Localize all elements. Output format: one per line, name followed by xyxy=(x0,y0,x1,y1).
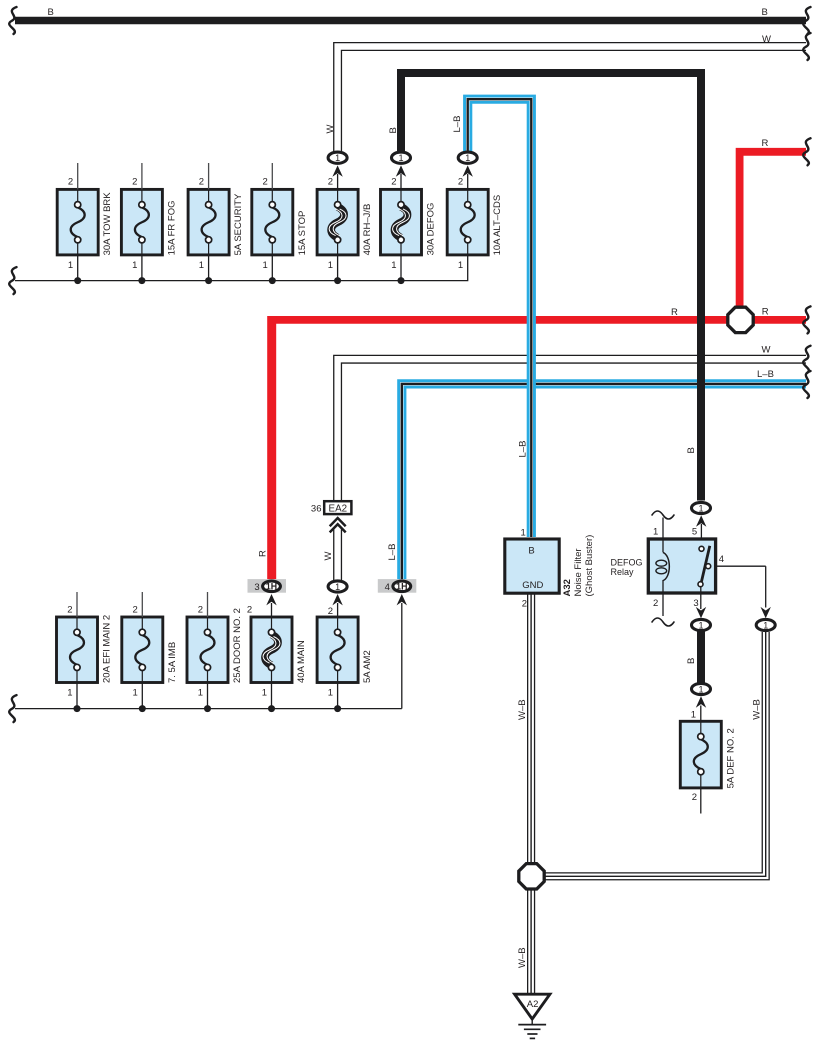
svg-text:Noise Filter: Noise Filter xyxy=(573,548,584,596)
svg-text:10A ALT–CDS: 10A ALT–CDS xyxy=(492,195,503,256)
svg-text:30A TOW BRK: 30A TOW BRK xyxy=(102,192,113,256)
connector 1 above 5A DEF NO.2 fuse xyxy=(692,683,711,694)
svg-text:1: 1 xyxy=(465,153,470,163)
connector 1 above 30A DEFOG (B wire) xyxy=(396,165,406,176)
wire B main bus top xyxy=(15,17,806,25)
octagon junction of W-B wires xyxy=(519,864,544,889)
octagon junction of R wires xyxy=(728,307,753,332)
svg-text:2: 2 xyxy=(247,605,252,616)
svg-text:W–B: W–B xyxy=(751,699,762,720)
break symbol left end of fuse row 1 bus xyxy=(9,267,16,294)
svg-text:1: 1 xyxy=(391,260,396,271)
break symbol right end of B bus xyxy=(803,7,810,34)
fuse 10A ALT–CDS xyxy=(447,177,503,271)
junction dot row-1 bus at x=77.7 xyxy=(74,277,81,284)
connector EA2 pin 36 xyxy=(324,501,351,514)
svg-text:20A EFI MAIN 2: 20A EFI MAIN 2 xyxy=(102,615,113,683)
svg-text:2: 2 xyxy=(522,598,527,609)
svg-text:1: 1 xyxy=(398,153,403,163)
break symbol right end of R wire middle xyxy=(803,306,810,333)
wire fuse pin 1 to bus at x=272.3 xyxy=(271,255,273,281)
wire fuse pin 1 to bus at x=208.6 xyxy=(208,255,210,281)
svg-text:A32: A32 xyxy=(562,579,573,596)
break symbol right end of W top wire xyxy=(803,33,810,60)
wire fuse pin 1 to bus at x=142.3 xyxy=(141,683,143,709)
break symbol left end of B bus xyxy=(9,7,16,34)
wire B thick from 30A DEFOG fuse connector to DEFOG relay xyxy=(401,73,701,501)
svg-text:L–B: L–B xyxy=(517,441,528,458)
svg-text:(Ghost Buster): (Ghost Buster) xyxy=(584,535,595,597)
fuse 5A DEF NO. 2 xyxy=(680,721,736,788)
relay switch arm xyxy=(700,546,709,586)
svg-text:2: 2 xyxy=(132,177,137,188)
wire R from right edge to octagon junction xyxy=(740,152,806,307)
svg-text:15A STOP: 15A STOP xyxy=(297,211,308,256)
svg-text:1: 1 xyxy=(199,260,204,271)
svg-text:2: 2 xyxy=(328,177,333,188)
svg-text:4: 4 xyxy=(719,554,724,565)
break symbol right end of L-B wire xyxy=(803,371,810,398)
svg-text:2: 2 xyxy=(68,177,73,188)
wire fuse pin 1 to bus at x=401.0 xyxy=(400,255,402,281)
wire fuse pin 1 to bus at x=337.6 xyxy=(337,255,339,281)
svg-text:Relay: Relay xyxy=(611,567,635,577)
svg-text:1: 1 xyxy=(335,153,340,163)
svg-text:1: 1 xyxy=(328,688,333,699)
svg-text:B: B xyxy=(528,545,534,556)
svg-text:L–B: L–B xyxy=(387,544,398,561)
wire fuse pin 1 to bus at x=77.0 xyxy=(76,683,78,709)
fuse 20A EFI MAIN 2 xyxy=(57,604,113,698)
wire fuse pin 1 to bus at x=207.5 xyxy=(207,683,209,709)
stub wire above row-2 fuse at x=142.3 xyxy=(141,592,143,617)
svg-text:1: 1 xyxy=(698,620,703,630)
relay pin 2 with break tilde xyxy=(662,580,664,616)
stub wire above row-1 fuse at x=141.9 xyxy=(141,163,143,189)
svg-text:36: 36 xyxy=(311,504,322,515)
junction dot row-1 bus at x=401.0 xyxy=(398,277,405,284)
wire relay pin 3 down to connector xyxy=(700,586,702,609)
fuse 30A TOW BRK xyxy=(57,177,113,271)
wire L-B from 10A ALT-CDS connector to noise filter A32 xyxy=(468,99,532,537)
connector 1H pin 3 (red wire to 40A MAIN) xyxy=(266,594,276,605)
svg-text:B: B xyxy=(48,7,54,18)
relay pin 1 with break tilde xyxy=(662,518,664,553)
break symbol right end of W middle wire xyxy=(803,346,810,373)
svg-text:2: 2 xyxy=(653,598,658,609)
svg-text:1: 1 xyxy=(262,688,267,699)
svg-text:2: 2 xyxy=(458,177,463,188)
junction dot row-2 bus at x=142.3 xyxy=(139,705,146,712)
wire B thick between connectors below relay pin 3 xyxy=(697,631,705,683)
junction dot row-2 bus at x=337.6 xyxy=(334,705,341,712)
wire L-B horizontal to right edge, down to 1H connector pin 4 xyxy=(402,384,806,581)
svg-text:1: 1 xyxy=(68,260,73,271)
svg-text:B: B xyxy=(686,658,697,664)
svg-text:GND: GND xyxy=(522,580,543,591)
fuse 40A RH–J/B xyxy=(317,177,373,271)
fuse 40A MAIN xyxy=(251,617,307,699)
svg-text:1: 1 xyxy=(698,503,703,513)
stub wire above row-1 fuse at x=272.3 xyxy=(271,163,273,189)
svg-text:1: 1 xyxy=(328,260,333,271)
shield chevrons below EA2 xyxy=(330,518,346,532)
wire from relay pin 4 to connector xyxy=(716,565,766,567)
junction dot row-2 bus at x=271.5 xyxy=(268,705,275,712)
svg-text:R: R xyxy=(762,307,769,318)
fuse 5A SECURITY xyxy=(188,177,244,271)
connector 1 above 40A RH-J/B (W wire) xyxy=(332,165,342,176)
stub wire above row-1 fuse at x=77.7 xyxy=(77,163,79,189)
svg-text:2: 2 xyxy=(391,177,396,188)
connector 1 above relay pin 5 xyxy=(696,515,706,526)
svg-text:W–B: W–B xyxy=(517,699,528,720)
stub wire above row-2 fuse at x=207.5 xyxy=(207,592,209,617)
svg-text:1H: 1H xyxy=(266,582,277,592)
svg-text:1: 1 xyxy=(653,527,658,538)
wire R from octagon junction to right edge xyxy=(752,316,806,324)
DEFOG relay box xyxy=(648,539,715,593)
svg-text:R: R xyxy=(671,307,678,318)
connector 1 below relay pin 3 xyxy=(696,607,706,618)
bus wire below fuse row 2 xyxy=(15,708,402,710)
wire W-B from noise filter GND to octagon junction xyxy=(527,594,535,865)
stub below 5A DEF NO.2 fuse xyxy=(700,788,702,814)
connector 1 above 5A AM2 xyxy=(332,594,342,605)
svg-text:EA2: EA2 xyxy=(329,503,348,514)
wire W below EA2 connector down to connector 1 xyxy=(333,530,342,581)
connector 1 on W-B wire right side xyxy=(761,607,771,618)
svg-text:1: 1 xyxy=(698,684,703,694)
svg-text:7. 5A IMB: 7. 5A IMB xyxy=(167,642,178,683)
svg-text:1: 1 xyxy=(458,260,463,271)
svg-text:2: 2 xyxy=(692,792,697,803)
wire fuse pin 1 to bus at x=337.6 xyxy=(337,683,339,709)
svg-text:5: 5 xyxy=(692,527,697,538)
svg-text:W: W xyxy=(762,34,771,45)
fuse 5A AM2 xyxy=(317,617,373,699)
fuse 15A STOP xyxy=(252,177,308,271)
break symbol left end of fuse row 2 bus xyxy=(9,695,16,722)
junction dot row-1 bus at x=208.6 xyxy=(205,277,212,284)
svg-text:DEFOG: DEFOG xyxy=(611,558,643,568)
svg-text:L–B: L–B xyxy=(757,369,774,380)
svg-text:1: 1 xyxy=(133,688,138,699)
svg-text:5A DEF NO. 2: 5A DEF NO. 2 xyxy=(725,728,736,788)
fuse 30A DEFOG xyxy=(381,177,437,271)
fuse 7. 5A IMB xyxy=(122,604,178,698)
svg-text:5A AM2: 5A AM2 xyxy=(362,650,373,683)
svg-text:3: 3 xyxy=(254,582,259,593)
svg-text:30A DEFOG: 30A DEFOG xyxy=(426,203,437,256)
junction dot row-1 bus at x=141.9 xyxy=(138,277,145,284)
bus wire below fuse row 1 xyxy=(15,255,468,281)
svg-text:40A RH–J/B: 40A RH–J/B xyxy=(362,204,373,256)
fuse 25A DOOR NO. 2 xyxy=(187,604,243,698)
relay coil xyxy=(663,552,670,580)
svg-text:40A MAIN: 40A MAIN xyxy=(296,640,307,683)
connector 1 above 10A ALT-CDS (L-B wire) xyxy=(463,165,473,176)
noise filter A32 box xyxy=(505,539,559,593)
break symbol right end of R wire top xyxy=(803,138,810,165)
svg-text:2: 2 xyxy=(199,177,204,188)
wire W middle horizontal to right edge, down to EA2 connector xyxy=(338,359,806,500)
stub wire above row-1 fuse at x=208.6 xyxy=(208,163,210,189)
svg-text:1: 1 xyxy=(691,710,696,721)
junction dot row-1 bus at x=272.3 xyxy=(269,277,276,284)
svg-text:15A FR FOG: 15A FR FOG xyxy=(166,200,177,255)
svg-text:5A SECURITY: 5A SECURITY xyxy=(233,193,244,255)
wire fuse pin 1 to bus at x=271.5 xyxy=(271,683,273,709)
junction dot row-2 bus at x=207.5 xyxy=(204,705,211,712)
svg-text:W: W xyxy=(762,345,771,356)
junction dot row-1 bus at x=337.6 xyxy=(334,277,341,284)
svg-text:A2: A2 xyxy=(527,999,539,1010)
svg-text:2: 2 xyxy=(328,606,333,617)
connector 1H pin 4 (L-B wire to bus) xyxy=(397,594,407,605)
svg-text:W–B: W–B xyxy=(517,947,528,968)
junction dot row-2 bus at x=77.0 xyxy=(74,705,81,712)
wire fuse pin 1 to bus at x=141.9 xyxy=(141,255,143,281)
wire W top horizontal (from connector above 40A RH-J/B fuse to right edge) xyxy=(338,47,806,153)
svg-text:2: 2 xyxy=(133,604,138,615)
svg-text:4: 4 xyxy=(385,582,390,593)
wire W-B below octagon junction to ground A2 xyxy=(527,889,535,995)
svg-text:L–B: L–B xyxy=(452,116,463,133)
svg-text:2: 2 xyxy=(198,604,203,615)
svg-text:2: 2 xyxy=(263,177,268,188)
wire fuse pin 1 to bus at x=77.7 xyxy=(77,255,79,281)
svg-text:B: B xyxy=(762,7,768,18)
relay switch contacts xyxy=(699,546,704,551)
fuse 15A FR FOG xyxy=(121,177,177,271)
ground symbol A2 xyxy=(515,994,550,1019)
svg-text:25A DOOR NO. 2: 25A DOOR NO. 2 xyxy=(232,608,243,683)
svg-text:B: B xyxy=(388,127,399,133)
svg-text:1: 1 xyxy=(67,688,72,699)
svg-text:W: W xyxy=(323,552,334,561)
wire R horizontal through middle to octagon xyxy=(268,316,730,324)
wire R vertical down to 1H connector pin 3 xyxy=(267,316,276,581)
wire W-B from octagon junction right and up to connector below relay pin 4 xyxy=(544,632,766,876)
svg-text:R: R xyxy=(257,550,268,557)
stub wire above row-2 fuse at x=77.0 xyxy=(76,592,78,617)
svg-text:1H: 1H xyxy=(396,582,407,592)
svg-text:1: 1 xyxy=(132,260,137,271)
svg-text:1: 1 xyxy=(521,528,526,539)
svg-text:1: 1 xyxy=(263,260,268,271)
svg-text:1: 1 xyxy=(198,688,203,699)
svg-text:B: B xyxy=(686,447,697,453)
svg-text:W: W xyxy=(325,125,336,134)
svg-text:1: 1 xyxy=(763,620,768,630)
svg-text:1: 1 xyxy=(335,582,340,592)
svg-text:2: 2 xyxy=(67,604,72,615)
svg-text:R: R xyxy=(762,138,769,149)
